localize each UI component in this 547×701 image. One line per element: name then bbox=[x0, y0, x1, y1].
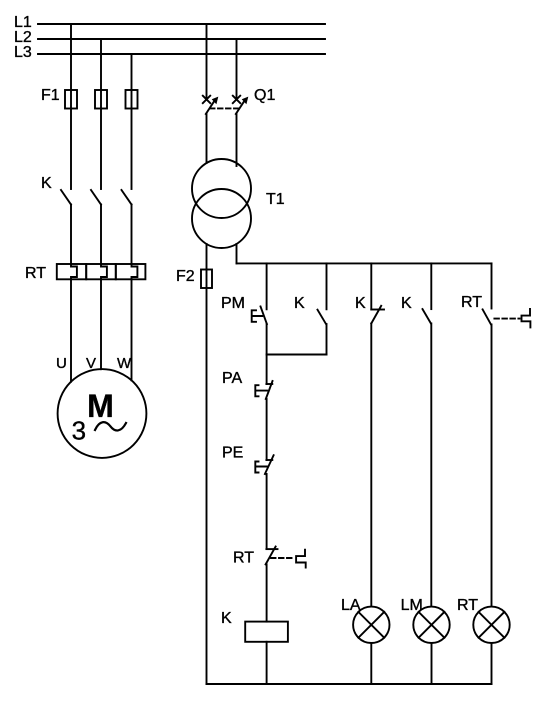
contact K pole a bbox=[61, 190, 71, 205]
fuse F1a bbox=[65, 90, 77, 109]
wire contact Ka to overload RTa bbox=[70, 205, 72, 265]
pushbutton PA NC contact blade bbox=[266, 381, 273, 399]
svg-text:F2: F2 bbox=[176, 268, 195, 285]
svg-text:PM: PM bbox=[221, 295, 245, 312]
wire transformer T1 to fuse F2 bbox=[206, 244, 208, 270]
breaker Q1 pole 1 cross terminal bbox=[203, 96, 210, 103]
wire seal contact K1 down bbox=[326, 324, 328, 355]
contact K pole c bbox=[122, 190, 132, 205]
wire contact RT2 to lamp RT bbox=[491, 325, 493, 607]
contact K2 NC seat bar bbox=[371, 309, 384, 311]
contact K pole b bbox=[91, 190, 101, 205]
wire lamp RT to bottom bus bbox=[491, 643, 493, 684]
wire lamp LM to bottom bus bbox=[431, 643, 433, 684]
breaker Q1 pole 2 cross terminal bbox=[233, 96, 240, 103]
breaker Q1 pole 1 contact blade bbox=[206, 100, 215, 114]
pushbutton PA actuator bbox=[255, 385, 267, 396]
wire control top bus bbox=[237, 262, 492, 264]
svg-text:K: K bbox=[221, 610, 232, 627]
wire contact Kb to overload RTb bbox=[100, 205, 102, 265]
wire L1 rail bbox=[38, 23, 325, 25]
motor M1 3-phase body bbox=[58, 369, 147, 458]
wire L2 to fuse F1b bbox=[100, 39, 102, 90]
wire contact K2 to lamp LA bbox=[370, 323, 372, 606]
wire bus to pushbutton PM bbox=[266, 263, 268, 309]
pushbutton PM NO contact blade bbox=[261, 307, 267, 325]
fuse F1c bbox=[126, 90, 138, 109]
wire bus to contact RT2 bbox=[491, 263, 493, 308]
pushbutton PE NC contact blade bbox=[265, 455, 274, 474]
overload RT NC contact seat bar bbox=[266, 548, 277, 550]
svg-text:PE: PE bbox=[222, 445, 243, 462]
svg-text:U: U bbox=[56, 355, 67, 372]
wire PE to RT contact bbox=[266, 474, 268, 549]
contact RT2 trip actuator flag bbox=[522, 309, 531, 327]
overload RT trip dashed link bbox=[271, 557, 294, 559]
wire contact K3 to lamp LM bbox=[430, 323, 432, 606]
wire L1 to fuse F1a bbox=[70, 24, 72, 90]
wire fuse F1c to contact Kc bbox=[131, 109, 133, 190]
wire control bottom bus bbox=[207, 683, 492, 685]
contact K2 NC blade bbox=[371, 306, 381, 324]
svg-text:M: M bbox=[87, 388, 114, 424]
wire breaker Q1 pole 2 to transformer T1 bbox=[236, 114, 238, 166]
svg-text:L3: L3 bbox=[14, 44, 32, 61]
pushbutton PA NC contact seat bar bbox=[266, 383, 272, 385]
wire L3 rail bbox=[38, 53, 325, 55]
wire seal branch horizontal to junction A bbox=[267, 354, 327, 356]
contact RT2 NO blade bbox=[483, 309, 491, 324]
svg-text:Q1: Q1 bbox=[254, 87, 275, 104]
transformer T1 secondary winding bbox=[192, 189, 251, 248]
wire L3 to fuse F1c bbox=[131, 54, 133, 90]
wire fuse F1a to contact Ka bbox=[70, 109, 72, 190]
wire transformer T1 to control bus bbox=[236, 244, 238, 263]
svg-text:RT: RT bbox=[25, 265, 46, 282]
thermal overload relay RT element a bbox=[57, 264, 86, 279]
thermal overload relay RT element c bbox=[116, 264, 146, 279]
wire breaker Q1 pole 1 to transformer T1 bbox=[206, 114, 208, 163]
breaker Q1 linkage dashed tie bbox=[210, 107, 241, 109]
breaker Q1 pole 2 contact blade bbox=[236, 100, 245, 114]
svg-text:RT: RT bbox=[461, 294, 482, 311]
fuse F2 bbox=[201, 270, 212, 289]
wire contact Kc to overload RTc bbox=[131, 205, 133, 265]
lamp LM bbox=[413, 607, 449, 643]
wire L1 to breaker Q1 pole 1 bbox=[206, 24, 208, 99]
svg-text:RT: RT bbox=[233, 550, 254, 567]
overload RT trip actuator flag bbox=[296, 550, 306, 568]
wire overload RTb to motor terminal V bbox=[100, 279, 102, 369]
wire PA to PE bbox=[266, 399, 268, 460]
breaker Q1 pole 1 arrowhead bbox=[212, 97, 219, 105]
lamp LA bbox=[353, 607, 389, 643]
transformer T1 primary winding bbox=[192, 159, 251, 218]
coil K of contactor bbox=[245, 622, 288, 642]
svg-text:K: K bbox=[294, 295, 305, 312]
svg-text:3: 3 bbox=[72, 416, 86, 446]
wire overload RTc to motor terminal W bbox=[131, 279, 133, 380]
seal contact K1 NO blade bbox=[318, 310, 327, 324]
svg-text:K: K bbox=[41, 175, 52, 192]
svg-text:K: K bbox=[401, 295, 412, 312]
wire bus to contact K3 bbox=[430, 263, 432, 309]
fuse F1b bbox=[95, 90, 107, 109]
svg-text:W: W bbox=[117, 355, 132, 372]
wire fuse F2 down to bottom bus bbox=[206, 288, 208, 684]
motor AC tilde bbox=[95, 422, 126, 430]
wire RT contact to coil K bbox=[266, 564, 268, 621]
wire lamp LA to bottom bus bbox=[370, 643, 372, 684]
pushbutton PE NC contact seat bar bbox=[266, 459, 272, 461]
pushbutton PE actuator bbox=[255, 462, 267, 473]
wire overload RTa to motor terminal U bbox=[70, 279, 72, 381]
lamp RT bbox=[473, 607, 509, 643]
wire L2 rail bbox=[38, 38, 325, 40]
contact RT2 trip dashed link bbox=[494, 318, 519, 320]
wire bus to seal contact K1 bbox=[326, 263, 328, 309]
contact K3 NO blade bbox=[423, 309, 431, 323]
wire L2 to breaker Q1 pole 2 bbox=[236, 39, 238, 99]
svg-text:K: K bbox=[355, 295, 366, 312]
overload RT NC contact blade bbox=[266, 547, 276, 565]
wire fuse F1b to contact Kb bbox=[100, 109, 102, 190]
wire coil K to bottom bus bbox=[266, 642, 268, 684]
thermal overload relay RT element b bbox=[86, 264, 116, 279]
wire bus to contact K2 bbox=[370, 263, 372, 309]
pushbutton PM actuator bbox=[252, 310, 263, 322]
svg-text:PA: PA bbox=[222, 370, 242, 387]
wire PM to junction A bbox=[266, 324, 268, 384]
svg-text:RT: RT bbox=[457, 597, 478, 614]
svg-text:F1: F1 bbox=[41, 87, 60, 104]
svg-text:T1: T1 bbox=[266, 191, 285, 208]
breaker Q1 pole 2 arrowhead bbox=[242, 97, 249, 105]
